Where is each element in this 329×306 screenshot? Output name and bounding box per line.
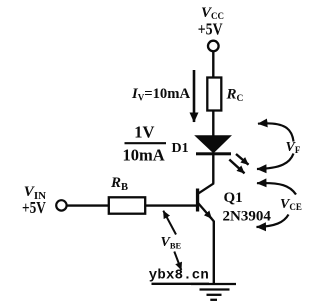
ground	[191, 284, 236, 300]
svg-text:10mA: 10mA	[123, 146, 165, 165]
VBE arrow to base wire	[163, 211, 176, 235]
VCE upper curved arrow	[257, 183, 296, 194]
node VIN label	[22, 184, 46, 217]
svg-text:RC: RC	[226, 87, 244, 105]
VCE lower curved arrow	[257, 215, 289, 228]
svg-text:VCC: VCC	[201, 5, 224, 21]
wire emitter to ground	[213, 221, 215, 284]
svg-text:VBE: VBE	[161, 235, 182, 251]
svg-text:2N3904: 2N3904	[223, 209, 272, 225]
wire LED to collector	[212, 155, 214, 184]
current label IV=10mA	[131, 86, 191, 103]
svg-text:VCE: VCE	[280, 197, 302, 212]
wire VIN to RB	[67, 204, 109, 206]
svg-text:+5V: +5V	[198, 20, 223, 39]
transistor Q1 base bar	[196, 189, 199, 212]
svg-text:RB: RB	[110, 175, 128, 193]
svg-text:1V: 1V	[134, 123, 154, 142]
label RC	[226, 87, 244, 105]
label VBE	[161, 235, 182, 251]
terminal VCC	[208, 41, 219, 52]
svg-text:Q1: Q1	[224, 190, 243, 206]
watermark underline	[152, 283, 210, 285]
LED light emission arrow 1	[236, 154, 249, 165]
LED D1 cathode bar	[196, 152, 231, 155]
svg-text:IV=10mA: IV=10mA	[131, 86, 191, 103]
resistor RC	[207, 78, 221, 111]
terminal VIN	[56, 200, 66, 210]
resistor RB	[109, 197, 145, 213]
svg-text:D1: D1	[172, 141, 189, 156]
label VF	[286, 140, 301, 155]
svg-text:+5V: +5V	[22, 198, 46, 217]
current arrow IV	[193, 70, 196, 122]
label RB	[110, 175, 128, 193]
node VCC label	[198, 5, 224, 39]
VF lower curved arrow	[257, 154, 294, 170]
value fraction 1V/10mA	[123, 123, 165, 165]
label Q1	[223, 190, 272, 225]
transistor Q1 collector line	[198, 183, 214, 194]
transistor Q1 emitter line with arrow	[198, 203, 212, 219]
LED light emission arrow 2	[229, 160, 244, 174]
fraction bar	[125, 142, 167, 144]
svg-text:VF: VF	[286, 140, 301, 155]
LED D1 anode triangle	[196, 136, 230, 152]
label VCE	[280, 197, 302, 212]
VF upper curved arrow	[258, 123, 294, 141]
wire RC to LED	[212, 111, 214, 138]
label D1	[172, 141, 189, 156]
watermark arrow	[174, 252, 181, 271]
wire VCC to RC	[212, 52, 214, 79]
wire RB to base	[145, 204, 196, 206]
watermark text ybx8.cn	[149, 267, 209, 283]
svg-text:ybx8.cn: ybx8.cn	[149, 267, 209, 283]
